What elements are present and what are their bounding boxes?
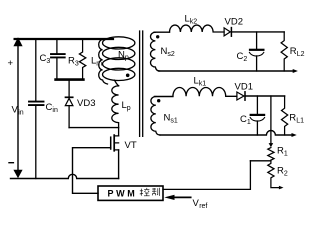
node bar under C3/R3: [56, 78, 84, 81]
dot Ns1: [157, 99, 160, 102]
PWM control block: [98, 186, 163, 200]
svg-text:VD2: VD2: [225, 16, 243, 27]
glyph 制: [152, 188, 159, 196]
wire gate: [73, 148, 111, 194]
source Vin line: [17, 45, 19, 171]
svg-text:s1: s1: [170, 118, 178, 125]
capacitor C1: [256, 96, 258, 114]
transformer core: [140, 31, 143, 136]
svg-text:VD3: VD3: [77, 98, 95, 109]
svg-text:2: 2: [284, 171, 288, 178]
wire feedback into PWM: [163, 161, 250, 190]
svg-text:3: 3: [75, 61, 79, 68]
svg-text:2: 2: [243, 56, 247, 63]
svg-text:p: p: [127, 105, 131, 112]
resistor RL2: [281, 32, 287, 71]
resistor R1: [268, 148, 274, 161]
svg-text:PWM: PWM: [108, 188, 138, 198]
wire feedback tap: [250, 160, 271, 162]
inductor Lp: [112, 86, 119, 136]
svg-text:k2: k2: [190, 19, 198, 26]
svg-text:1: 1: [284, 151, 288, 158]
svg-text:+: +: [8, 58, 14, 69]
label Vin: [12, 105, 24, 117]
svg-text:p: p: [125, 55, 129, 62]
node R1 tap from rail: [270, 96, 272, 143]
svg-text:3: 3: [46, 58, 50, 65]
svg-text:VT: VT: [125, 140, 137, 151]
resistor R2: [268, 160, 281, 187]
wire output2 bottom rail: [159, 70, 294, 72]
inductor Lk2: [170, 25, 225, 32]
Vref arrow: [175, 196, 191, 198]
capacitor C3: [56, 39, 58, 53]
wire output2 top rail: [231, 31, 284, 33]
diode VD1: [237, 92, 244, 100]
resistor R3: [79, 39, 85, 80]
wire bottom rail with hop: [11, 174, 119, 178]
svg-text:1: 1: [247, 119, 251, 126]
svg-text:m: m: [96, 61, 102, 68]
dot Ns2: [156, 35, 159, 38]
diode VD3: [68, 81, 70, 98]
diode VD2: [224, 28, 230, 36]
wire output1 bottom rail with hop: [160, 131, 292, 136]
winding Np: [103, 37, 135, 49]
svg-text:L2: L2: [297, 51, 305, 58]
source bottom arrow: [13, 170, 22, 179]
inductor Lm: [99, 40, 108, 84]
capacitor C2: [256, 32, 258, 49]
resistor RL1: [282, 96, 288, 135]
wire VD3 to drain: [69, 127, 119, 129]
wire top rail: [15, 38, 113, 40]
svg-text:VD1: VD1: [235, 81, 253, 92]
glyph 控: [140, 188, 150, 196]
capacitor Cin: [35, 39, 37, 101]
svg-text:k1: k1: [199, 80, 207, 87]
winding Ns2: [154, 31, 169, 33]
source top arrow: [13, 37, 22, 46]
label -: [9, 162, 13, 164]
wire Np to Lp: [115, 80, 119, 86]
arrow output1 terminal: [292, 133, 297, 137]
svg-text:in: in: [52, 107, 58, 114]
svg-text:ref: ref: [199, 203, 207, 209]
svg-text:s2: s2: [167, 51, 175, 58]
inductor Lk1: [173, 87, 237, 96]
svg-text:L1: L1: [296, 118, 304, 125]
wire output1 top rail: [245, 95, 285, 97]
arrow output2 terminal: [293, 69, 298, 73]
dot Np: [126, 74, 130, 78]
transistor VT (MOSFET): [113, 135, 115, 151]
arrow R2 terminal: [279, 186, 284, 190]
svg-text:in: in: [18, 110, 24, 117]
winding Ns1: [155, 96, 173, 98]
arrow on R1 lead: [269, 143, 274, 147]
